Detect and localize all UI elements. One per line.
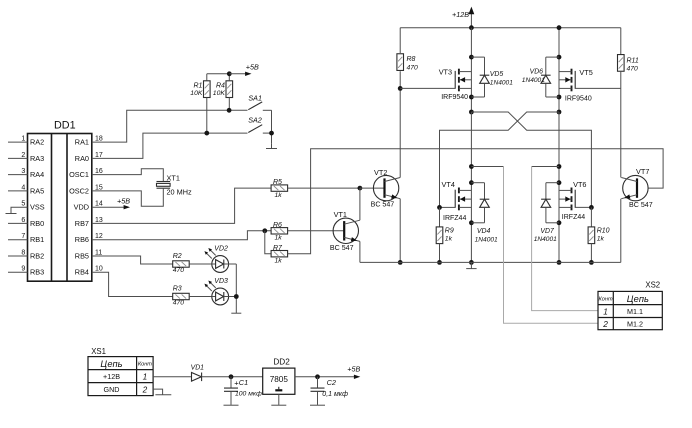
svg-text:RB1: RB1: [30, 235, 44, 244]
wire XS1 pin2 to ground: [153, 389, 163, 395]
svg-text:1N4001: 1N4001: [534, 236, 557, 243]
svg-text:RB0: RB0: [30, 219, 44, 228]
svg-text:BC 547: BC 547: [629, 201, 653, 209]
MOSFET VT6 IRFZ44: [559, 180, 594, 221]
svg-text:RA1: RA1: [75, 138, 89, 147]
DD2 ground pin: [271, 394, 286, 405]
svg-text:17: 17: [95, 152, 103, 159]
resistor R10 1k: [588, 207, 610, 264]
voltage regulator DD2 7805: [263, 358, 295, 395]
VT7 emitter wire: [620, 199, 622, 263]
svg-text:2: 2: [142, 384, 148, 394]
wire pin18 RA1 to SA1: [92, 110, 248, 142]
wire right bridge output to XS2 pin 1: [532, 167, 598, 311]
resistor R5 1k: [271, 179, 288, 199]
wire VD2 cathode: [229, 263, 237, 265]
svg-text:VD3: VD3: [214, 278, 228, 285]
svg-text:1N4001: 1N4001: [475, 237, 498, 244]
resistor R1 10K: [190, 74, 210, 133]
wire R3 to VD3: [189, 296, 212, 298]
node right bridge X tap: [557, 110, 562, 115]
svg-text:IRF9540: IRF9540: [441, 94, 468, 101]
svg-text:+12В: +12В: [103, 372, 120, 381]
wire R7 to VT7 base (long line): [288, 149, 663, 254]
right bridge lower column: [557, 112, 562, 265]
svg-text:2: 2: [21, 152, 25, 159]
wire pin10 RB4 to R3: [92, 272, 173, 296]
svg-text:VD6: VD6: [530, 68, 544, 75]
connector XS2: [598, 281, 662, 330]
right bridge column (VT5 drain chain): [557, 25, 562, 112]
svg-text:Цепь: Цепь: [627, 294, 649, 304]
ground at VSS pin 5: [6, 207, 28, 213]
ground below LEDs: [231, 312, 241, 314]
svg-text:SA1: SA1: [248, 93, 262, 102]
svg-text:R2: R2: [173, 253, 182, 260]
svg-text:7805: 7805: [270, 375, 289, 384]
ground rail: [360, 261, 621, 263]
svg-text:VT2: VT2: [374, 168, 387, 177]
svg-text:OSC1: OSC1: [69, 170, 89, 179]
svg-text:RA5: RA5: [30, 186, 44, 195]
svg-text:470: 470: [627, 65, 639, 72]
svg-text:7: 7: [21, 233, 25, 240]
wire XT1 to OSC2: [92, 188, 164, 206]
svg-text:470: 470: [407, 64, 419, 71]
svg-text:VT4: VT4: [442, 180, 455, 189]
svg-text:VD7: VD7: [540, 228, 555, 235]
IC DD1 microcontroller: [21, 120, 102, 282]
svg-text:3: 3: [21, 168, 25, 175]
svg-text:1k: 1k: [445, 236, 453, 243]
svg-text:10K: 10K: [190, 90, 203, 97]
connector XS1: [88, 347, 153, 395]
svg-text:RA2: RA2: [30, 138, 44, 147]
diode VD6 1N4001: [522, 57, 559, 97]
diode VD1: [191, 365, 205, 382]
svg-text:1: 1: [603, 306, 608, 316]
svg-text:C2: C2: [327, 378, 336, 387]
transistor VT1 BC547: [330, 210, 360, 252]
MOSFET VT4 IRFZ44: [437, 180, 471, 222]
svg-text:1: 1: [21, 136, 25, 143]
left bridge lower column: [469, 112, 474, 265]
svg-text:RB7: RB7: [75, 219, 89, 228]
svg-text:12: 12: [95, 233, 103, 240]
resistor R2 470: [173, 253, 190, 274]
resistor R7 1k: [271, 245, 288, 265]
svg-text:R5: R5: [273, 179, 282, 186]
wire XS1 pin1 to VD1: [153, 376, 191, 378]
svg-text:8: 8: [21, 249, 25, 256]
svg-text:470: 470: [173, 299, 185, 306]
svg-text:14: 14: [95, 201, 103, 208]
wire pin17 RA0 to SA2: [92, 133, 248, 158]
VT1 emitter wire: [359, 241, 361, 262]
svg-text:9: 9: [21, 266, 25, 273]
wire OSC1 to XT1: [92, 169, 164, 182]
wire VD3 cathode to ground: [229, 264, 239, 313]
svg-text:М1.2: М1.2: [627, 320, 643, 329]
ground at XS1 pin2: [155, 394, 171, 396]
svg-text:470: 470: [173, 267, 185, 274]
wire R6 to VT1 base: [288, 230, 345, 232]
svg-text:VT5: VT5: [579, 68, 592, 77]
MOSFET VT3 IRF9540: [400, 67, 471, 101]
resistor R6 1k: [271, 222, 288, 242]
svg-text:BC 547: BC 547: [371, 201, 395, 209]
svg-text:20 MHz: 20 MHz: [167, 187, 192, 196]
left bridge column (VT3 drain chain): [469, 28, 474, 112]
wire left bridge output to XS2 pin 2: [471, 167, 598, 324]
switch SA2: [248, 115, 271, 133]
wire R6/R7 branch: [265, 231, 271, 254]
svg-text:Цепь: Цепь: [100, 359, 122, 369]
svg-text:11: 11: [95, 249, 102, 256]
node left bridge X tap: [469, 110, 474, 115]
transistor VT2 BC547: [371, 168, 401, 209]
svg-text:100 мкф: 100 мкф: [235, 390, 262, 397]
ground below SA2: [266, 143, 277, 148]
svg-text:VD4: VD4: [477, 228, 491, 235]
pin stubs 1-9: [8, 142, 28, 272]
svg-text:Конт: Конт: [599, 296, 613, 302]
svg-text:IRFZ44: IRFZ44: [443, 215, 466, 222]
svg-text:4: 4: [21, 184, 25, 191]
svg-text:R9: R9: [445, 227, 454, 234]
svg-text:GND: GND: [104, 385, 120, 394]
svg-text:RB3: RB3: [30, 268, 44, 277]
svg-text:RB4: RB4: [75, 268, 89, 277]
svg-text:SA2: SA2: [248, 115, 262, 124]
VT7 collector wire: [620, 88, 622, 177]
svg-text:2: 2: [602, 319, 608, 329]
svg-text:VT1: VT1: [334, 210, 347, 219]
svg-text:XT1: XT1: [167, 173, 180, 182]
svg-text:R6: R6: [273, 222, 282, 229]
svg-text:C1: C1: [239, 378, 248, 387]
svg-text:1k: 1k: [597, 236, 605, 243]
resistor R8 470: [397, 28, 418, 91]
wire pin13 RB7 to R5: [92, 188, 271, 223]
resistor R9 1k: [436, 207, 454, 264]
svg-text:R4: R4: [216, 82, 225, 89]
svg-text:R3: R3: [173, 286, 182, 293]
svg-text:RA4: RA4: [30, 170, 44, 179]
svg-text:1k: 1k: [275, 235, 283, 242]
wire pin12 RB6 to R6/R7: [92, 228, 271, 239]
switch SA1: [248, 93, 271, 110]
LED VD2: [204, 245, 228, 272]
svg-text:1k: 1k: [275, 192, 283, 199]
transistor VT7 BC547: [621, 167, 652, 209]
VT1 collector wire: [359, 188, 361, 220]
svg-text:VSS: VSS: [30, 203, 45, 212]
svg-text:+12B: +12B: [452, 10, 469, 19]
svg-text:6: 6: [21, 217, 25, 224]
MOSFET VT5 IRF9540: [559, 68, 621, 102]
svg-text:R11: R11: [627, 57, 639, 64]
svg-text:RB5: RB5: [75, 251, 89, 260]
svg-text:RA3: RA3: [30, 154, 44, 163]
svg-text:13: 13: [95, 217, 103, 224]
svg-text:R10: R10: [597, 227, 610, 234]
svg-text:0,1 мкф: 0,1 мкф: [322, 391, 348, 398]
svg-text:IRF9540: IRF9540: [565, 95, 592, 102]
svg-text:VT6: VT6: [573, 180, 586, 189]
svg-text:VT3: VT3: [439, 67, 452, 76]
svg-text:VD5: VD5: [490, 71, 504, 78]
svg-text:15: 15: [95, 184, 103, 191]
svg-text:16: 16: [95, 168, 103, 175]
LED VD3: [204, 278, 228, 305]
svg-text:BC 547: BC 547: [330, 244, 354, 252]
svg-text:RB6: RB6: [75, 235, 89, 244]
svg-text:DD2: DD2: [273, 358, 290, 367]
svg-text:VT7: VT7: [636, 167, 649, 176]
svg-text:XS1: XS1: [91, 347, 106, 356]
svg-text:10: 10: [95, 266, 103, 273]
VT2 collector wire: [399, 88, 401, 177]
crossing wire right-to-left (to VT4 gate): [440, 112, 560, 207]
resistor R11 470: [618, 28, 639, 89]
svg-text:VD1: VD1: [191, 365, 205, 372]
svg-text:DD1: DD1: [54, 120, 76, 132]
svg-text:OSC2: OSC2: [69, 186, 89, 195]
svg-text:+5B: +5B: [347, 364, 360, 373]
wire R2 to VD2: [189, 263, 212, 265]
+5B supply at VDD pin 14: [92, 197, 130, 210]
diode VD7 1N4001: [534, 183, 559, 243]
capacitor C1 100mkf: [224, 377, 263, 405]
svg-text:1N4001: 1N4001: [522, 77, 545, 84]
wire DD2 to C2 and +5B: [295, 364, 361, 379]
svg-text:+5B: +5B: [117, 197, 130, 206]
svg-text:IRFZ44: IRFZ44: [562, 214, 585, 221]
+5B supply at R1/R4: [207, 62, 259, 76]
+12B supply symbol: [452, 7, 474, 28]
svg-text:+5B: +5B: [246, 62, 259, 71]
svg-text:5: 5: [21, 201, 25, 208]
svg-text:VD2: VD2: [214, 245, 228, 252]
svg-text:1: 1: [143, 372, 148, 382]
diode VD4 1N4001: [471, 183, 498, 244]
capacitor C2 0.1mkf: [310, 377, 348, 405]
svg-text:RA0: RA0: [75, 154, 89, 163]
resistor R3 470: [173, 286, 190, 307]
svg-text:М1.1: М1.1: [627, 307, 643, 316]
resistor R4 10K: [213, 74, 233, 111]
svg-text:1k: 1k: [275, 258, 283, 265]
svg-text:Конт: Конт: [138, 362, 152, 368]
+12B supply rail: [400, 27, 621, 29]
wire SA1/SA2 common: [269, 110, 274, 143]
ground symbol on rail: [470, 262, 472, 268]
node R1 bottom: [204, 131, 209, 136]
crossing wire left-to-right (to VT6 gate): [471, 112, 591, 207]
svg-text:R8: R8: [407, 56, 416, 63]
wire R5 to VT2 base: [288, 186, 385, 191]
diode VD5 1N4001: [471, 57, 513, 97]
svg-text:RB2: RB2: [30, 251, 44, 260]
crystal XT1 20 MHz: [157, 173, 192, 196]
svg-text:VDD: VDD: [74, 203, 89, 212]
wire VD1 to DD2: [202, 374, 263, 379]
svg-text:1N4001: 1N4001: [490, 80, 513, 87]
svg-text:18: 18: [95, 136, 103, 143]
VT2 emitter wire: [398, 199, 403, 265]
node R4 bottom: [227, 108, 232, 113]
node +12B rail / VT3 column: [469, 25, 474, 30]
svg-text:XS2: XS2: [645, 281, 660, 290]
wire pin11 RB5 to R2: [92, 256, 173, 264]
svg-text:R1: R1: [193, 82, 202, 89]
svg-text:10K: 10K: [213, 90, 226, 97]
svg-text:R7: R7: [273, 245, 283, 252]
